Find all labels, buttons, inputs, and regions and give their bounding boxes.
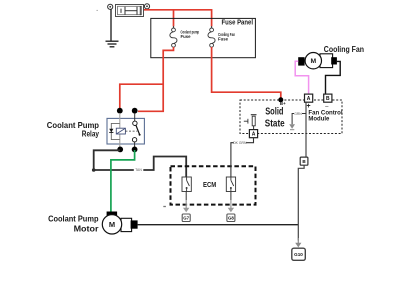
relay terminal 30 (top right dot) — [132, 108, 138, 114]
coolant pump relay K1 — [107, 113, 144, 148]
wire label GRN — [294, 112, 302, 116]
svg-text:GRN: GRN — [294, 112, 302, 116]
fuse F2 cooling fan fuse — [208, 26, 215, 47]
relay switch — [133, 121, 137, 125]
wire motor ground to G10 (black) — [138, 224, 299, 226]
cooling fan motor M2 — [298, 53, 337, 69]
svg-text:ECM: ECM — [203, 182, 216, 189]
svg-text:TAN: TAN — [135, 168, 142, 172]
wire relay coil ground side to ECM (black) — [94, 150, 187, 177]
ground branch GRN inside module — [289, 114, 306, 130]
fuse panel box — [151, 18, 256, 57]
svg-text:B+: B+ — [280, 101, 286, 106]
connector B lower — [300, 157, 308, 165]
svg-text:B: B — [326, 96, 330, 102]
svg-text:Fuse Panel: Fuse Panel — [222, 18, 254, 27]
wire label DK GRN — [233, 141, 247, 145]
wire cooling fan negative to connector B (black) — [326, 61, 341, 94]
wire coolant pump fuse output (red) to relay — [138, 47, 174, 111]
svg-text:Fuse: Fuse — [181, 34, 192, 39]
wire fan control A output down to connector B lower — [305, 102, 307, 157]
svg-text:Cooling Fan: Cooling Fan — [324, 45, 364, 54]
wire ECM driver2 to G8 with arrow — [228, 192, 234, 213]
stray mark — [96, 10, 98, 11]
wire cooling fan positive to connector A (pink) — [295, 61, 308, 94]
fan control module dashed box — [240, 100, 342, 134]
svg-text:+: + — [307, 103, 311, 110]
svg-text:G10: G10 — [294, 252, 303, 257]
svg-text:G7: G7 — [183, 216, 189, 221]
wire label TAN — [134, 168, 144, 173]
svg-text:A: A — [307, 96, 311, 102]
battery positive terminal — [144, 4, 149, 9]
coolant pump motor M1 — [102, 212, 137, 235]
svg-text:–: – — [325, 103, 329, 110]
battery negative terminal — [108, 4, 113, 9]
stray tick mark — [163, 206, 166, 208]
wire battery negative to ground — [110, 9, 112, 41]
wire battery positive to fuse panel (red B+ feed) — [144, 9, 212, 11]
relay terminal 85 (bottom left dot) — [117, 147, 123, 153]
battery B1 — [116, 5, 144, 17]
connector A (fan +) — [305, 94, 313, 110]
svg-text:Coolant Pump: Coolant Pump — [48, 213, 98, 223]
wire red drop to coolant pump fuse — [173, 10, 175, 27]
svg-text:Relay: Relay — [82, 129, 99, 139]
coolant pump motor label — [48, 213, 99, 233]
wire relay output to coolant pump motor (green) — [111, 150, 135, 212]
node B+ — [278, 97, 286, 106]
wire cooling fan fuse output (red) to fan control module B+ — [212, 47, 281, 98]
relay coil to switch dashed link — [125, 130, 137, 132]
svg-text:M: M — [109, 220, 115, 229]
relay terminal 87 (bottom right dot) — [132, 147, 138, 153]
transistor Q1 (solid state switch) — [244, 115, 257, 130]
fuse F1 coolant pump fuse — [170, 26, 177, 47]
wire red drop to cooling fan fuse — [211, 9, 213, 27]
ECM driver 1 (coolant pump relay driver) — [182, 177, 191, 192]
relay label — [47, 120, 99, 139]
wire connector B to ground G10 — [295, 165, 304, 247]
relay coil — [111, 123, 120, 139]
wire red branch to relay coil terminal — [120, 84, 163, 109]
ECM driver 2 (fan control driver) — [226, 177, 235, 192]
svg-text:State: State — [265, 118, 285, 129]
ground — [106, 41, 119, 47]
svg-text:M: M — [310, 58, 316, 65]
ECM dashed box — [171, 166, 256, 204]
relay terminal 86 (top left dot) — [117, 108, 123, 114]
wire fan control module A to ECM driver2 (dark green) — [231, 138, 254, 177]
connector G7 — [182, 214, 190, 222]
svg-text:Solid: Solid — [265, 106, 283, 117]
svg-text:Module: Module — [308, 115, 329, 122]
svg-text:DK GRN: DK GRN — [233, 141, 247, 145]
svg-text:Fuse: Fuse — [218, 37, 229, 42]
connector A (fan control module output to ECM) — [249, 130, 257, 138]
ground connector G10 — [292, 248, 306, 260]
node junction on relay-ECM wire — [92, 168, 96, 172]
connector B (fan -) — [324, 94, 332, 110]
wire ECM driver1 to G7 with arrow — [183, 192, 189, 213]
svg-text:A: A — [252, 132, 256, 138]
relay flyback diode — [109, 129, 113, 133]
solid state label — [265, 106, 285, 129]
svg-text:Motor: Motor — [74, 223, 100, 233]
connector G8 — [227, 214, 235, 222]
svg-text:G8: G8 — [228, 216, 234, 221]
